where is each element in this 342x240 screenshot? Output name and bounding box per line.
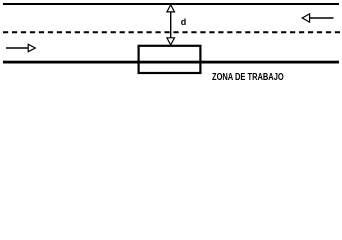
dimension arrowhead up xyxy=(167,5,175,12)
dashed center line xyxy=(3,31,340,33)
dimension arrow shaft xyxy=(170,11,172,39)
traffic arrow right head xyxy=(28,44,35,51)
work zone rectangle xyxy=(139,46,201,73)
middle road edge line xyxy=(3,61,339,64)
top road edge line xyxy=(3,3,339,5)
svg-text:d: d xyxy=(181,17,187,27)
traffic arrow left head xyxy=(302,14,309,22)
traffic arrow right shaft xyxy=(6,47,29,49)
svg-text:ZONA DE TRABAJO: ZONA DE TRABAJO xyxy=(212,71,284,82)
traffic arrow left shaft xyxy=(310,17,334,19)
dimension arrowhead down xyxy=(167,38,175,45)
